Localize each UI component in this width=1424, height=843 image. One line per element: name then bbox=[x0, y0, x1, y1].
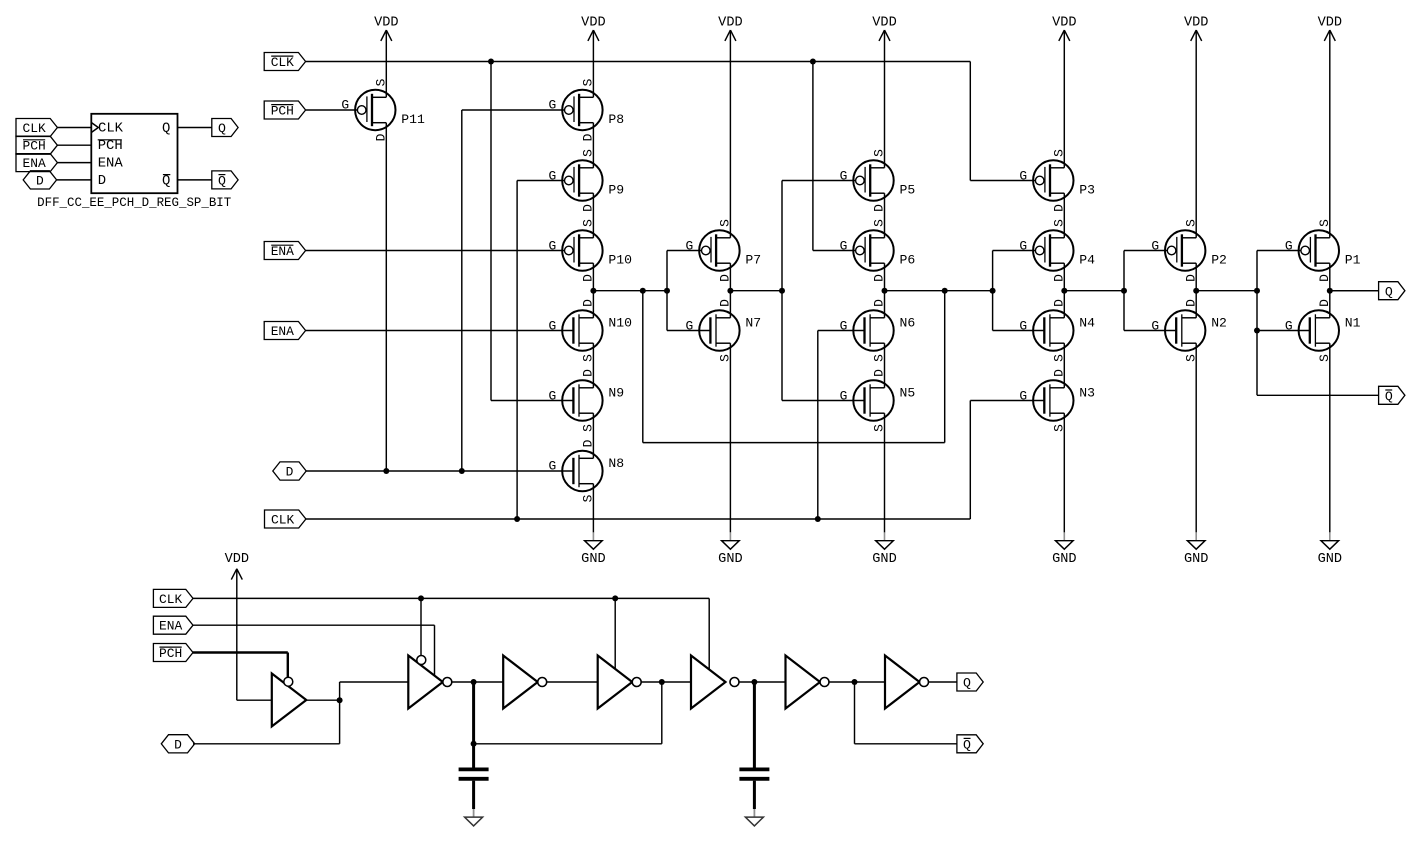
svg-text:N10: N10 bbox=[608, 316, 632, 331]
svg-text:Q: Q bbox=[1385, 389, 1393, 404]
svg-text:PCH: PCH bbox=[22, 139, 45, 154]
svg-text:D: D bbox=[872, 204, 887, 212]
svg-text:PCH: PCH bbox=[159, 646, 182, 661]
svg-text:P8: P8 bbox=[608, 112, 624, 127]
svg-text:N2: N2 bbox=[1211, 316, 1227, 331]
svg-text:Q: Q bbox=[162, 173, 170, 189]
svg-text:VDD: VDD bbox=[718, 14, 742, 30]
svg-text:S: S bbox=[872, 219, 887, 227]
svg-text:S: S bbox=[718, 219, 733, 227]
svg-text:VDD: VDD bbox=[374, 14, 398, 30]
svg-text:Q: Q bbox=[218, 174, 226, 189]
svg-text:CLK: CLK bbox=[98, 121, 124, 137]
svg-text:S: S bbox=[718, 354, 733, 362]
svg-text:D: D bbox=[1184, 274, 1199, 282]
svg-text:D: D bbox=[374, 133, 389, 141]
svg-text:D: D bbox=[581, 299, 596, 307]
svg-text:VDD: VDD bbox=[872, 14, 896, 30]
svg-text:Q: Q bbox=[1385, 284, 1393, 299]
svg-text:D: D bbox=[1052, 369, 1067, 377]
svg-text:VDD: VDD bbox=[1318, 14, 1342, 30]
svg-text:S: S bbox=[1317, 354, 1332, 362]
svg-text:GND: GND bbox=[581, 551, 605, 567]
svg-text:N1: N1 bbox=[1345, 316, 1361, 331]
svg-text:D: D bbox=[718, 299, 733, 307]
svg-text:S: S bbox=[374, 78, 389, 86]
svg-text:D: D bbox=[581, 274, 596, 282]
svg-text:N8: N8 bbox=[608, 456, 624, 471]
svg-text:P10: P10 bbox=[608, 253, 632, 268]
svg-text:Q: Q bbox=[963, 737, 971, 752]
svg-text:D: D bbox=[718, 274, 733, 282]
svg-text:D: D bbox=[872, 299, 887, 307]
svg-text:CLK: CLK bbox=[271, 55, 294, 70]
svg-text:N6: N6 bbox=[900, 316, 916, 331]
svg-text:D: D bbox=[1317, 299, 1332, 307]
svg-text:D: D bbox=[581, 439, 596, 447]
svg-text:Q: Q bbox=[218, 121, 226, 136]
svg-text:D: D bbox=[174, 737, 182, 752]
svg-text:S: S bbox=[872, 354, 887, 362]
svg-text:D: D bbox=[1052, 204, 1067, 212]
svg-text:S: S bbox=[1052, 149, 1067, 157]
svg-text:D: D bbox=[98, 173, 106, 189]
svg-text:P11: P11 bbox=[401, 112, 425, 127]
svg-text:D: D bbox=[1317, 274, 1332, 282]
svg-text:D: D bbox=[872, 369, 887, 377]
svg-text:ENA: ENA bbox=[22, 156, 45, 171]
svg-text:ENA: ENA bbox=[98, 156, 124, 172]
svg-text:D: D bbox=[581, 369, 596, 377]
svg-text:VDD: VDD bbox=[1184, 14, 1208, 30]
svg-text:P9: P9 bbox=[608, 183, 624, 198]
svg-text:ENA: ENA bbox=[271, 324, 294, 339]
svg-text:P3: P3 bbox=[1079, 183, 1095, 198]
svg-text:PCH: PCH bbox=[98, 138, 123, 154]
svg-text:GND: GND bbox=[718, 551, 742, 567]
svg-text:S: S bbox=[1052, 219, 1067, 227]
svg-text:ENA: ENA bbox=[159, 619, 182, 634]
svg-text:Q: Q bbox=[963, 676, 971, 691]
svg-text:S: S bbox=[1184, 354, 1199, 362]
svg-text:S: S bbox=[1052, 424, 1067, 432]
svg-text:VDD: VDD bbox=[581, 14, 605, 30]
svg-text:GND: GND bbox=[872, 551, 896, 567]
svg-text:VDD: VDD bbox=[225, 551, 249, 567]
svg-text:VDD: VDD bbox=[1052, 14, 1076, 30]
svg-text:N3: N3 bbox=[1079, 386, 1095, 401]
svg-text:CLK: CLK bbox=[22, 121, 45, 136]
svg-text:P4: P4 bbox=[1079, 253, 1095, 268]
svg-text:GND: GND bbox=[1318, 551, 1342, 567]
svg-text:DFF_CC_EE_PCH_D_REG_SP_BIT: DFF_CC_EE_PCH_D_REG_SP_BIT bbox=[37, 196, 231, 210]
svg-text:D: D bbox=[872, 274, 887, 282]
svg-text:N4: N4 bbox=[1079, 316, 1095, 331]
svg-text:GND: GND bbox=[1052, 551, 1076, 567]
svg-text:D: D bbox=[36, 174, 44, 189]
svg-text:D: D bbox=[1052, 274, 1067, 282]
svg-text:CLK: CLK bbox=[159, 592, 182, 607]
svg-text:GND: GND bbox=[1184, 551, 1208, 567]
svg-text:S: S bbox=[872, 149, 887, 157]
svg-text:S: S bbox=[581, 494, 596, 502]
svg-text:N7: N7 bbox=[745, 316, 761, 331]
svg-text:S: S bbox=[581, 149, 596, 157]
svg-text:S: S bbox=[581, 354, 596, 362]
svg-text:D: D bbox=[1184, 299, 1199, 307]
svg-text:P5: P5 bbox=[900, 183, 916, 198]
svg-text:S: S bbox=[581, 424, 596, 432]
svg-text:P2: P2 bbox=[1211, 253, 1227, 268]
svg-text:P7: P7 bbox=[745, 253, 761, 268]
svg-text:D: D bbox=[581, 133, 596, 141]
svg-text:S: S bbox=[1317, 219, 1332, 227]
svg-text:D: D bbox=[286, 465, 294, 480]
svg-text:Q: Q bbox=[162, 121, 170, 137]
svg-text:D: D bbox=[581, 204, 596, 212]
svg-text:S: S bbox=[1184, 219, 1199, 227]
svg-text:PCH: PCH bbox=[271, 104, 294, 119]
svg-text:P1: P1 bbox=[1345, 253, 1361, 268]
svg-text:P6: P6 bbox=[900, 253, 916, 268]
svg-text:S: S bbox=[581, 219, 596, 227]
svg-text:S: S bbox=[1052, 354, 1067, 362]
svg-text:ENA: ENA bbox=[271, 244, 294, 259]
svg-text:CLK: CLK bbox=[271, 513, 294, 528]
svg-text:N9: N9 bbox=[608, 386, 624, 401]
svg-text:N5: N5 bbox=[900, 386, 916, 401]
svg-text:S: S bbox=[872, 424, 887, 432]
svg-text:S: S bbox=[581, 78, 596, 86]
svg-text:D: D bbox=[1052, 299, 1067, 307]
